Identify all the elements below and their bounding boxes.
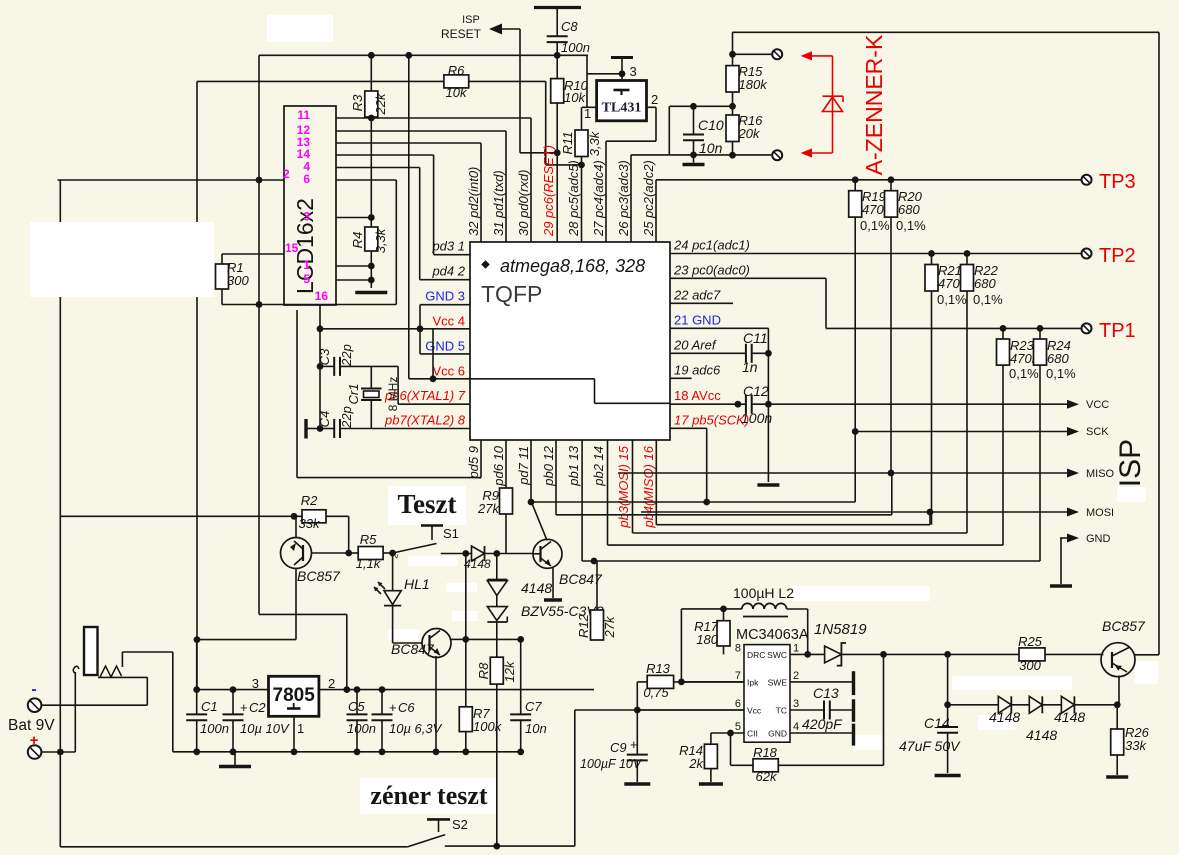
svg-text:C6: C6 — [398, 700, 415, 715]
diode D1 4148 — [472, 546, 485, 561]
resistor R1 — [221, 254, 223, 264]
wire R3 to R4 column — [370, 117, 372, 227]
svg-text:+: + — [630, 737, 638, 752]
svg-text:100n: 100n — [741, 410, 772, 426]
node pin5 junction — [727, 730, 734, 737]
svg-text:2: 2 — [328, 676, 335, 691]
svg-text:3,3k: 3,3k — [373, 227, 388, 253]
wire C4 to pb7 XTAL2 — [371, 428, 470, 430]
svg-text:32 pd2(int0): 32 pd2(int0) — [466, 167, 481, 236]
LCD16x2 module — [284, 106, 336, 305]
node R7 gnd — [462, 748, 469, 755]
svg-text:C8: C8 — [561, 19, 578, 34]
resistor R14 — [710, 733, 712, 744]
svg-text:1N5819: 1N5819 — [814, 621, 867, 638]
white patch zener teszt — [360, 778, 497, 814]
svg-text:+: + — [389, 700, 397, 715]
node C14 junction — [944, 651, 951, 658]
node pin16 gnd taps — [317, 325, 324, 332]
power flag above C8 — [534, 6, 581, 9]
resistor R5 — [349, 552, 359, 554]
svg-text:R8: R8 — [476, 662, 491, 679]
svg-text:MOSI: MOSI — [1086, 507, 1114, 519]
resistor R12 — [596, 561, 598, 610]
svg-text:SWC: SWC — [767, 650, 787, 660]
svg-text:Vcc: Vcc — [747, 706, 762, 716]
wire BC857 collector to input rail — [197, 639, 296, 641]
svg-text:MISO: MISO — [1086, 468, 1115, 480]
svg-text:C5: C5 — [348, 699, 365, 714]
svg-text:C9: C9 — [610, 740, 627, 755]
ground left of C4 — [307, 428, 320, 430]
resistor R25 — [1019, 648, 1045, 661]
node +5V taps — [368, 52, 375, 59]
svg-text:+: + — [240, 700, 248, 715]
zener diode A-ZENNER-K red — [801, 51, 812, 60]
resistor R23 — [1002, 328, 1004, 339]
svg-text:22p: 22p — [339, 344, 354, 367]
resistor R9 on pd6 — [505, 440, 507, 488]
crystal circuit wires — [320, 365, 334, 367]
svg-text:300: 300 — [227, 273, 249, 288]
svg-text:27k: 27k — [477, 501, 500, 516]
svg-text:3: 3 — [303, 210, 310, 224]
wire SCK line — [855, 431, 1068, 433]
transistor Q1 BC857 — [281, 538, 312, 569]
svg-text:29 pc6(RESET): 29 pc6(RESET) — [541, 145, 556, 237]
svg-text:100µF 10V: 100µF 10V — [580, 757, 643, 771]
wire LCD pin6 — [336, 179, 396, 181]
ground below C10 — [693, 155, 695, 163]
svg-text:Ipk: Ipk — [747, 677, 759, 687]
svg-text:BC847: BC847 — [391, 641, 435, 657]
wire R1 bottom — [222, 304, 396, 306]
wire bottom rail to S2 — [60, 846, 408, 848]
white patch bottom right 3 — [978, 715, 1015, 730]
wire MC34063 pin1 SWC output — [790, 653, 825, 655]
svg-text:GND: GND — [768, 729, 787, 739]
capacitor C7 — [510, 713, 531, 715]
wire 7805 gnd pin — [293, 716, 295, 752]
resistor R24 — [1039, 328, 1041, 339]
node Vcc C9 junction — [634, 707, 641, 714]
ISP SCK arrow — [1067, 427, 1079, 436]
svg-text:Vcc 4: Vcc 4 — [432, 314, 465, 329]
wire LCD pin1 — [336, 265, 371, 267]
node R17 top — [720, 606, 727, 613]
node Q4 collector R26 — [1114, 701, 1121, 708]
white patch Teszt — [388, 486, 466, 525]
node Vcc6 junction — [430, 375, 437, 382]
svg-text:pb3(MOSI) 15: pb3(MOSI) 15 — [616, 445, 631, 528]
resistor R8 — [496, 639, 498, 657]
svg-text:10n: 10n — [525, 721, 547, 736]
node R8 S2 junction — [493, 843, 500, 850]
wire pin20 Aref to C11 — [670, 352, 746, 354]
resistor R2 — [302, 510, 326, 523]
svg-text:20k: 20k — [738, 126, 761, 141]
wire pb1 staircase — [581, 440, 583, 561]
svg-text:2: 2 — [283, 167, 290, 181]
svg-text:C10: C10 — [698, 117, 724, 133]
svg-text:pb1 13: pb1 13 — [566, 445, 581, 487]
svg-text:pd6 10: pd6 10 — [491, 445, 506, 487]
node MISO R20 junction — [888, 470, 895, 477]
svg-text:S1: S1 — [443, 526, 459, 541]
resistor R7 — [465, 639, 467, 706]
wire 7805 output rail — [319, 689, 594, 691]
svg-text:C14: C14 — [924, 715, 950, 731]
node TP3 taps — [852, 176, 859, 183]
ISP VCC arrow — [1067, 400, 1079, 409]
white patch ISP — [1117, 487, 1146, 502]
capacitor C1 — [196, 640, 198, 715]
node input rail junction — [194, 636, 201, 643]
wire pb2 staircase — [607, 440, 609, 545]
wire S2 to boost vcc — [445, 845, 575, 847]
wire R2 right to base — [348, 516, 350, 553]
node output rail taps — [343, 686, 350, 693]
ISP GND arrow — [1060, 537, 1068, 539]
capacitor C5 — [356, 690, 358, 715]
svg-text:3: 3 — [793, 698, 799, 710]
node diode column junction — [493, 550, 500, 557]
node SCK R19 junction — [852, 428, 859, 435]
wire reset to MCU pin29 — [556, 153, 558, 242]
capacitor C10 — [693, 106, 695, 134]
svg-text:8: 8 — [735, 642, 741, 654]
resistor R16 — [726, 115, 739, 142]
transistor Q3 BC847 — [422, 629, 451, 658]
wire HL1 to Q3 base — [392, 606, 394, 643]
svg-text:GND: GND — [1086, 533, 1111, 545]
wire Q2 collector — [532, 504, 547, 541]
svg-text:17 pb5(SCK): 17 pb5(SCK) — [674, 412, 749, 427]
wire Q2 emitter to ground — [552, 567, 554, 599]
svg-text:pb2 14: pb2 14 — [591, 446, 606, 487]
node output R18 — [880, 651, 887, 658]
wire LCD pin14 to MCU pd3 — [336, 154, 434, 156]
op-amp U2 TL431 — [621, 74, 623, 81]
zener stack D2 D3 4148 BZV55 — [496, 554, 498, 580]
resistor R11 — [581, 107, 583, 130]
white patch HL1 area — [446, 583, 477, 592]
wire battery minus to jack — [42, 704, 148, 706]
svg-text:1: 1 — [793, 642, 799, 654]
svg-text:R25: R25 — [1018, 634, 1043, 649]
svg-text:C11: C11 — [743, 330, 768, 346]
svg-text:R11: R11 — [560, 132, 575, 155]
svg-text:10n: 10n — [699, 140, 723, 156]
power flag TL431 pin3 — [611, 56, 633, 59]
ground below C12 column — [757, 483, 779, 486]
svg-text:180: 180 — [696, 632, 718, 647]
svg-text:28 pc5(adc5): 28 pc5(adc5) — [566, 160, 581, 237]
wire R15 top to terminal — [733, 53, 772, 55]
node R13 L2 junction — [678, 679, 685, 686]
svg-text:0,1%: 0,1% — [860, 218, 890, 233]
wire right border high voltage — [1158, 32, 1160, 655]
svg-text:TQFP: TQFP — [481, 281, 542, 307]
node BC857 emitter junction — [291, 513, 298, 520]
svg-text:31 pd1(txd): 31 pd1(txd) — [491, 170, 506, 236]
capacitor C9 electrolytic — [636, 710, 638, 755]
node TP1 taps — [1000, 325, 1007, 332]
wire pb3 staircase — [632, 440, 634, 533]
svg-text:SCK: SCK — [1086, 426, 1109, 438]
wire LCD pin4 to MCU pd4 — [336, 167, 420, 169]
svg-text:3,3k: 3,3k — [587, 130, 602, 156]
svg-text:pd5 9: pd5 9 — [466, 446, 481, 480]
svg-text:S2: S2 — [452, 817, 468, 832]
IC U4 MC34063A — [744, 645, 790, 743]
transistor Q4 BC857 — [1101, 643, 1135, 677]
svg-text:6: 6 — [303, 172, 310, 186]
svg-text:4148: 4148 — [989, 709, 1020, 725]
svg-text:6: 6 — [735, 698, 741, 710]
wire C7 column — [520, 639, 522, 714]
wire LCD pin5 — [336, 279, 371, 281]
capacitor C14 — [947, 654, 949, 727]
wire C10 top to MCU pin26 — [669, 105, 732, 107]
node R11 bottom junction — [578, 162, 585, 169]
svg-text:pd4 2: pd4 2 — [431, 264, 465, 279]
white patch bottom right 4 — [853, 735, 882, 750]
wire TP3 line pc2 — [655, 180, 657, 242]
svg-text:C1: C1 — [201, 699, 218, 714]
ground below GND arrow — [1060, 538, 1062, 584]
svg-text:TL431: TL431 — [602, 101, 642, 116]
svg-text:1: 1 — [584, 106, 591, 121]
svg-text:BC857: BC857 — [297, 568, 341, 584]
MCU U1 atmega8 TQFP — [470, 242, 670, 440]
wire LCD pin16 ground column — [319, 305, 321, 429]
node L2 output junction — [804, 651, 811, 658]
capacitor C12 — [745, 395, 747, 414]
svg-text:Teszt: Teszt — [398, 489, 457, 519]
diode D4 1N5819 — [825, 646, 842, 663]
resistor R18 — [730, 733, 732, 765]
svg-text:TC: TC — [776, 706, 787, 716]
svg-text:19 adc6: 19 adc6 — [674, 362, 721, 377]
wire pin21 GND to ground — [670, 327, 768, 329]
svg-text:5: 5 — [735, 721, 741, 733]
wire TL431 pin2 to MCU pin27 — [647, 106, 657, 108]
white patch BC847 area — [388, 629, 420, 640]
node reset junction — [554, 149, 561, 156]
wire +5V riser to 7805 output — [259, 613, 347, 615]
ground below R4 — [355, 291, 387, 294]
node R4 pins 1 5 junctions — [368, 263, 375, 270]
terminal TP2 — [1082, 249, 1092, 259]
svg-text:1: 1 — [297, 721, 304, 736]
terminal battery minus — [28, 698, 42, 712]
svg-text:R6: R6 — [448, 63, 465, 78]
ground symbol below rail — [234, 752, 236, 765]
svg-text:680: 680 — [974, 276, 996, 291]
resistor R6 — [197, 80, 444, 82]
svg-text:R2: R2 — [301, 493, 318, 508]
wire ground rail — [173, 751, 521, 753]
resistor R26 — [1116, 705, 1118, 729]
switch S1 — [421, 524, 443, 527]
node R15 top — [729, 51, 736, 58]
svg-text:R12: R12 — [576, 613, 591, 638]
wire LCD pin12 to MCU pin31 — [336, 130, 506, 132]
svg-text:100n: 100n — [200, 721, 229, 736]
white patch 1N5819 area — [790, 586, 930, 601]
svg-text:C2: C2 — [249, 700, 266, 715]
svg-text:100k: 100k — [473, 719, 503, 734]
svg-text:0,1%: 0,1% — [1009, 366, 1039, 381]
terminal X1 upper — [772, 49, 782, 59]
svg-text:TP3: TP3 — [1099, 171, 1136, 193]
svg-text:2: 2 — [651, 92, 658, 107]
wire diode to BC847 base — [485, 553, 533, 555]
svg-text:0,1%: 0,1% — [973, 292, 1003, 307]
node R1 bottom junction — [256, 301, 263, 308]
wire pin17 jog to staircase — [706, 428, 708, 502]
resistor R22 — [966, 254, 968, 265]
svg-text:C4: C4 — [317, 411, 332, 428]
diode D5 4148 — [998, 696, 1011, 713]
svg-text:ISP: ISP — [462, 14, 480, 26]
wire LCD pin3 to R4 — [336, 217, 371, 219]
jack zigzag contact — [98, 676, 147, 678]
svg-text:0,75: 0,75 — [643, 685, 669, 700]
capacitor C4 — [320, 428, 334, 430]
svg-text:27 pc4(adc4): 27 pc4(adc4) — [591, 160, 606, 237]
svg-text:680: 680 — [898, 202, 920, 217]
svg-text:HL1: HL1 — [404, 576, 430, 592]
wire MCU Vcc column — [408, 55, 410, 379]
wire L2 feed — [680, 609, 682, 682]
svg-text:33k: 33k — [1125, 738, 1147, 753]
wire pb4 staircase — [655, 440, 657, 525]
svg-text:R5: R5 — [360, 532, 377, 547]
svg-text:10k: 10k — [564, 90, 586, 105]
wire top feed to R15 — [733, 31, 1160, 33]
svg-text:300: 300 — [1019, 658, 1041, 673]
node C10 bottom — [690, 152, 697, 159]
svg-text:5: 5 — [303, 272, 310, 286]
wire MOSI line — [641, 511, 1068, 513]
wire Vcc4 pin — [320, 328, 470, 330]
wire GND3 GND5 loop — [420, 304, 470, 306]
connector J1 power jack — [84, 627, 98, 675]
wire S1 to diode — [441, 553, 472, 555]
node TL431 pin3 — [619, 70, 626, 77]
node LCD pin2 junction — [256, 177, 263, 184]
svg-text:10k: 10k — [446, 85, 468, 100]
wire R6 right to R11 bottom — [545, 81, 547, 164]
svg-text:16: 16 — [315, 289, 329, 303]
resistor R20 — [890, 180, 892, 191]
capacitor C2 electrolytic — [232, 690, 234, 715]
jack hook contact — [73, 666, 79, 673]
svg-text:R13: R13 — [646, 661, 671, 676]
capacitor C6 electrolytic — [381, 690, 383, 715]
node Vcc4 gnd crossing — [417, 325, 424, 332]
diode D7 4148 — [1061, 696, 1074, 713]
node R5 S1 HL1 junction — [389, 550, 396, 557]
wire battery plus — [42, 751, 76, 753]
wire R18 riser to output — [883, 654, 885, 765]
svg-text:TP1: TP1 — [1099, 320, 1136, 342]
wire d5 d6 — [1011, 704, 1029, 706]
wire TL431 pin1 to R11 — [582, 106, 597, 108]
svg-text:24 pc1(adc1): 24 pc1(adc1) — [673, 238, 750, 253]
svg-text:100µH L2: 100µH L2 — [733, 585, 794, 601]
svg-text:Vcc 6: Vcc 6 — [432, 364, 465, 379]
wire LCD pin11 to MCU pin30 — [336, 117, 531, 119]
white patch bottom right 1 — [952, 676, 1072, 690]
terminal X2 lower — [772, 150, 782, 160]
resistor R3 — [370, 55, 372, 91]
ISP MOSI arrow — [1067, 508, 1079, 517]
node input rail taps — [193, 686, 200, 693]
capacitor C11 — [745, 344, 747, 363]
wire diode chain — [948, 704, 999, 706]
node R16 bottom — [729, 152, 736, 159]
diode D6 4148 — [1029, 696, 1042, 713]
svg-text:SWE: SWE — [768, 677, 788, 687]
svg-text:7: 7 — [735, 670, 741, 682]
LED HL1 — [392, 553, 394, 591]
svg-text:RESET: RESET — [441, 27, 482, 41]
svg-text:22p: 22p — [339, 406, 354, 429]
svg-text:C3: C3 — [317, 348, 332, 365]
wire +5V column left — [258, 55, 260, 614]
svg-text:GND 3: GND 3 — [425, 289, 465, 304]
wire Q4 right to border — [1135, 654, 1160, 656]
svg-text:0,1%: 0,1% — [1046, 366, 1076, 381]
svg-text:25 pc2(adc2): 25 pc2(adc2) — [641, 160, 656, 237]
svg-text:420pF: 420pF — [802, 716, 843, 732]
terminal TP3 — [1082, 175, 1092, 185]
resistor R15 — [726, 66, 739, 92]
transistor Q2 BC847 — [533, 539, 562, 568]
svg-text:4: 4 — [793, 721, 799, 733]
node R15 R16 junction — [729, 103, 736, 110]
svg-text:4148: 4148 — [1054, 709, 1085, 725]
wire +5V to TL431 cathode and ref — [586, 55, 588, 107]
wire C8 to reset column, resistor R10 — [556, 55, 558, 78]
node C7 top junction — [517, 636, 524, 643]
wire pin17 stub — [670, 427, 707, 429]
wire pd7 pb5 SCK staircase — [530, 440, 532, 502]
svg-text:R18: R18 — [753, 745, 778, 760]
wire LCD pin15 to R1 — [222, 253, 284, 255]
node base junction — [345, 550, 352, 557]
svg-text:62k: 62k — [756, 769, 778, 784]
plate bars right of MC34063 — [852, 671, 855, 695]
terminal TP1 — [1082, 323, 1092, 333]
resistor R17 — [717, 621, 730, 646]
wire boost Vcc rail — [575, 709, 744, 711]
svg-text:2k: 2k — [688, 756, 704, 771]
capacitor C3 — [333, 357, 335, 376]
svg-text:TP2: TP2 — [1099, 245, 1136, 267]
resistor R19 — [854, 180, 856, 191]
svg-text:0,1%: 0,1% — [937, 292, 967, 307]
wire crystal to pb6 XTAL1 — [371, 365, 398, 367]
svg-text:0,1%: 0,1% — [896, 218, 926, 233]
white patch diode area — [452, 611, 478, 621]
node R7 top junction — [462, 636, 469, 643]
svg-text:CII: CII — [747, 729, 758, 739]
svg-text:23 pc0(adc0): 23 pc0(adc0) — [673, 262, 750, 277]
